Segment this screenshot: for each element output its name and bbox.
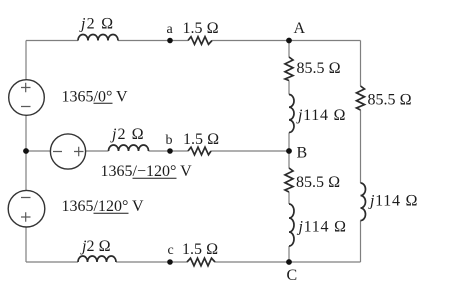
node c (167, 259, 173, 265)
wire branch B-C (288, 151, 290, 262)
svg-text:1.5 Ω: 1.5 Ω (183, 20, 219, 37)
inductor j2 mid (109, 145, 149, 151)
svg-text:85.5 Ω: 85.5 Ω (296, 174, 340, 191)
svg-text:A: A (294, 20, 306, 37)
svg-text:j2 Ω: j2 Ω (79, 16, 115, 33)
node C (286, 259, 292, 265)
wire branch A-B (288, 41, 290, 152)
inductor j114 right rail (361, 183, 366, 221)
svg-text:b: b (166, 133, 173, 148)
resistor 85.5 branch A-B (285, 57, 293, 81)
svg-text:1.5 Ω: 1.5 Ω (183, 131, 219, 148)
svg-text:j2 Ω: j2 Ω (80, 238, 111, 255)
svg-text:B: B (297, 145, 308, 162)
wire phase b (26, 150, 289, 152)
underline V1 angle (94, 102, 113, 104)
wire top rail (26, 40, 361, 42)
svg-text:a: a (167, 22, 174, 37)
inductor j114 branch B-C (289, 204, 294, 246)
svg-text:j114 Ω: j114 Ω (297, 219, 347, 236)
svg-text:85.5 Ω: 85.5 Ω (297, 60, 341, 77)
wire left rail (25, 41, 27, 263)
inductor j114 branch A-B (289, 95, 294, 133)
underline V2 angle (133, 177, 177, 179)
svg-text:c: c (168, 243, 174, 258)
node junction left rail (23, 148, 29, 154)
svg-text:1.5 Ω: 1.5 Ω (182, 241, 218, 258)
wire right rail (360, 41, 362, 263)
node a (167, 38, 173, 44)
node B (286, 148, 292, 154)
svg-text:j114 Ω: j114 Ω (368, 193, 418, 210)
inductor j2 bottom (78, 256, 116, 262)
svg-text:j2 Ω: j2 Ω (110, 126, 145, 143)
resistor 1.5 top (188, 37, 212, 45)
node A (286, 38, 292, 44)
resistor 85.5 right rail (357, 86, 365, 110)
svg-text:1365/120° V: 1365/120° V (62, 198, 145, 215)
svg-text:j114 Ω: j114 Ω (296, 107, 346, 124)
svg-text:85.5 Ω: 85.5 Ω (368, 92, 412, 109)
resistor 1.5 mid (188, 147, 211, 155)
source V2 1365/-120 (50, 134, 85, 169)
source V3 1365/120 (8, 190, 45, 227)
node b (167, 148, 173, 154)
wire bottom rail (26, 261, 361, 263)
svg-text:C: C (287, 267, 298, 284)
resistor 85.5 branch B-C (285, 168, 293, 192)
resistor 1.5 bottom (187, 258, 215, 266)
inductor j2 top (78, 35, 118, 41)
underline V3 angle (94, 212, 129, 214)
source V1 1365/0 (9, 80, 45, 116)
svg-text:1365/−120° V: 1365/−120° V (101, 163, 193, 180)
